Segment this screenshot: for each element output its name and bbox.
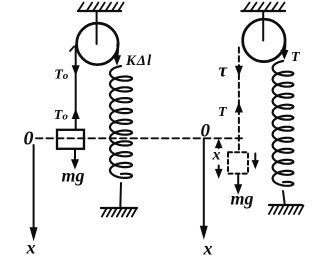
svg-text:KΔl: KΔl (125, 53, 152, 69)
svg-text:x: x (212, 147, 221, 164)
spring force arrow KΔl (down) (114, 56, 121, 65)
pulley axle left (96, 11, 98, 44)
ceiling support right (242, 3, 286, 12)
displacement marker arrow up (216, 140, 222, 148)
svg-text:T: T (218, 105, 228, 120)
wire: left string of left pulley (75, 46, 77, 130)
svg-text:mg: mg (62, 166, 85, 186)
tick mark near left pulley (70, 47, 74, 52)
svg-text:0: 0 (201, 121, 211, 142)
spring left (110, 66, 132, 178)
svg-text:τ: τ (219, 61, 228, 82)
tension T arrow (down, into spring) (281, 51, 288, 59)
svg-text:To: To (54, 68, 69, 83)
floor anchor left (101, 208, 137, 217)
spring lower rod left (119, 183, 122, 208)
mass box right (dashed) (228, 152, 248, 173)
pulley U1 left (77, 23, 119, 65)
tension tau arrow (down) (236, 66, 243, 75)
wire: right string of left pulley (116, 45, 119, 56)
pulley U2 right (243, 19, 285, 61)
mass box left (57, 130, 84, 149)
tension T0 arrow (up, on mass) (72, 110, 79, 119)
x axis right (201, 139, 208, 239)
svg-text:To: To (54, 108, 69, 123)
tension T0 arrow (down, on pulley side) (72, 66, 79, 75)
weight mg arrow right (235, 174, 242, 193)
svg-text:T: T (291, 50, 301, 65)
weight mg arrow left (72, 150, 79, 169)
floor anchor right (269, 205, 304, 214)
small displacement arrow beside box (252, 154, 258, 169)
svg-text:mg: mg (231, 189, 254, 209)
wire: right string of right pulley (284, 41, 287, 50)
svg-text:x: x (26, 238, 36, 256)
equilibrium dashed line (36, 137, 242, 139)
pulley axle right (262, 11, 264, 41)
displacement marker arrow down (216, 166, 222, 178)
spring lower rod right (283, 191, 285, 205)
wire: left string of right pulley (dashed) (238, 48, 240, 152)
x axis left (30, 145, 37, 240)
ceiling support left (78, 3, 124, 12)
tension T arrow (up) (236, 103, 243, 112)
svg-text:x: x (203, 239, 213, 256)
spring right (273, 61, 294, 186)
svg-text:0: 0 (24, 128, 34, 150)
